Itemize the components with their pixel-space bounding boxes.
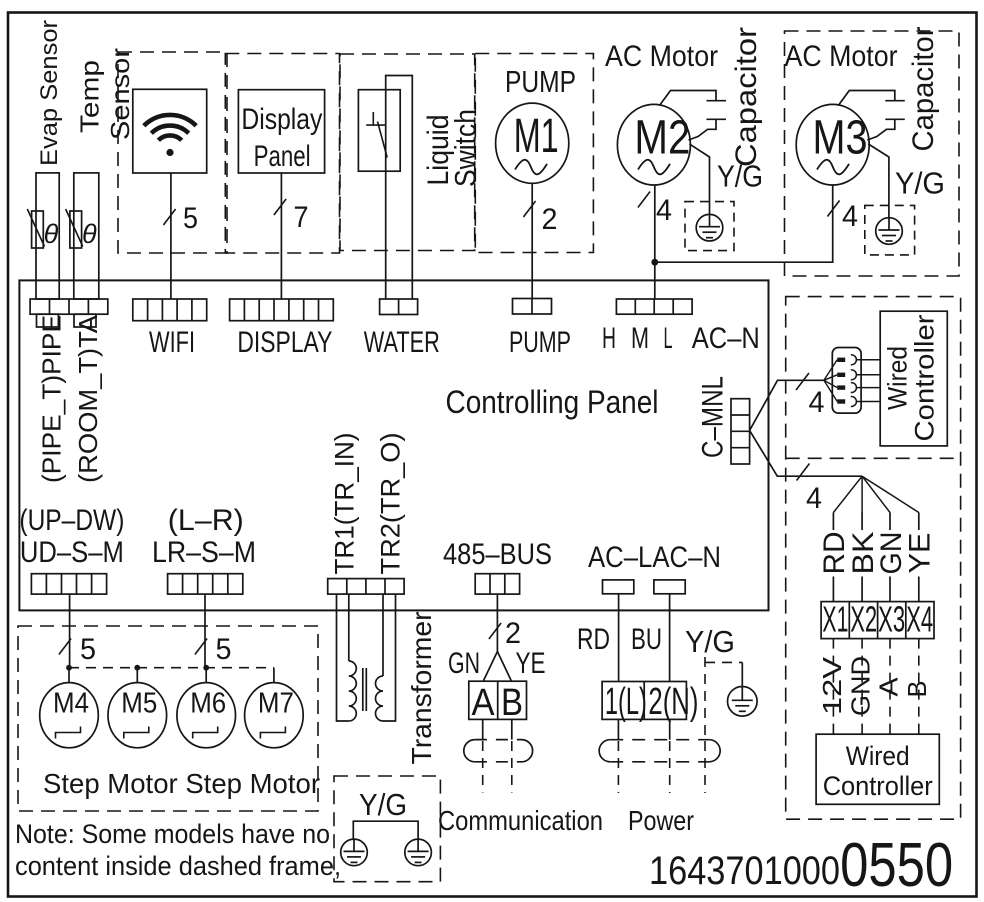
wire fork to A/B <box>484 652 498 681</box>
svg-text:5: 5 <box>216 633 232 666</box>
wire N to plug <box>669 719 671 739</box>
wired controller box (bottom) <box>816 734 939 804</box>
wire transformer primary inner <box>348 594 350 661</box>
svg-text:θ: θ <box>44 219 59 249</box>
svg-text:Capacitor: Capacitor <box>907 27 940 152</box>
wire GN segment <box>889 513 891 531</box>
wire count 4 (M3) <box>827 201 839 217</box>
wire to power earth <box>741 662 743 687</box>
capacitor C2 wiring bottom <box>867 119 895 140</box>
dashed box transformer earth <box>334 776 440 882</box>
step motor M5 circle <box>108 683 167 748</box>
display panel box U3 <box>238 90 324 173</box>
wire transformer primary outer <box>337 594 349 721</box>
svg-text:Note: Some models have no: Note: Some models have no <box>15 819 330 849</box>
svg-text:LR–S–M: LR–S–M <box>152 536 256 569</box>
svg-text:UD–S–M: UD–S–M <box>20 536 124 569</box>
junction node M4 <box>66 665 72 671</box>
capacitor C2 plate 1 <box>885 100 905 102</box>
svg-text:θ: θ <box>82 219 97 249</box>
wire UD-S-M to M4 <box>69 594 71 668</box>
wire M3 down to junction <box>655 185 833 262</box>
step motor M5 symbol <box>124 727 149 739</box>
svg-text:Temp: Temp <box>74 60 104 133</box>
wire count 4 (bottom) <box>797 464 810 481</box>
liquid switch S1 box <box>358 90 400 172</box>
wired controller box (top) <box>880 311 947 446</box>
svg-text:(ROOM_T)TA: (ROOM_T)TA <box>73 314 103 483</box>
wire count 2 (pump) <box>523 201 535 217</box>
dashed frame wired controller (top) <box>786 297 961 820</box>
svg-text:YE: YE <box>904 533 937 574</box>
svg-text:X2: X2 <box>850 599 877 640</box>
svg-text:A: A <box>873 677 903 697</box>
liquid switch cable run <box>386 76 413 300</box>
ground symbol earth 1 <box>341 839 368 866</box>
svg-text:M2: M2 <box>634 112 690 165</box>
svg-text:WATER: WATER <box>364 326 440 359</box>
svg-text:12V: 12V <box>817 656 847 715</box>
svg-text:Power: Power <box>628 805 694 836</box>
step motor M7 symbol <box>260 727 285 739</box>
svg-text:(L–R): (L–R) <box>168 504 244 537</box>
wire wifi module to WIFI connector <box>170 173 172 299</box>
svg-text:7: 7 <box>294 201 309 234</box>
dashed box M2 earth <box>685 202 734 251</box>
svg-text:5: 5 <box>183 202 198 235</box>
wire N dashed below <box>669 741 671 793</box>
svg-text:Display: Display <box>241 103 322 136</box>
motor M1 circle <box>496 103 569 183</box>
svg-text:PUMP: PUMP <box>509 326 571 359</box>
wired controller plug shell <box>832 348 861 414</box>
svg-text:Switch: Switch <box>450 109 483 187</box>
motor M1 sine <box>515 160 547 175</box>
wire Y/G dashed <box>704 657 706 740</box>
svg-text:M5: M5 <box>121 688 157 720</box>
svg-text:GND: GND <box>846 656 876 716</box>
plug pins <box>837 358 845 362</box>
ground symbol power earth <box>728 687 758 717</box>
connector AC-L <box>603 580 634 594</box>
svg-text:Panel: Panel <box>254 140 311 173</box>
svg-text:L: L <box>664 322 673 355</box>
connector PIPE/TA 4-pin <box>30 299 108 314</box>
ground symbol M3 <box>876 218 903 245</box>
svg-text:Step Motor Step Motor: Step Motor Step Motor <box>43 768 320 799</box>
step motor M6 symbol <box>193 727 218 739</box>
capacitor C1 wiring top <box>660 91 717 106</box>
wire transformer secondary inner <box>382 594 384 676</box>
svg-text:Sensor: Sensor <box>105 48 135 140</box>
wire B dashed below <box>511 741 513 793</box>
svg-text:Evap Sensor: Evap Sensor <box>36 20 63 166</box>
wire M2 to earth <box>689 144 709 215</box>
connector AC-N <box>654 580 685 594</box>
terminal block X1 X2 X3 X4 <box>821 602 934 639</box>
wifi module box U2 <box>133 89 207 173</box>
svg-text:2: 2 <box>505 617 521 650</box>
wire C-MNL to X terminals <box>750 430 863 476</box>
svg-text:PUMP: PUMP <box>505 64 576 99</box>
svg-text:C–MNL: C–MNL <box>696 376 729 458</box>
connector PIPE/TA tab 1 <box>37 314 59 327</box>
thermistor RT1 element <box>32 211 44 248</box>
wire B dashed <box>918 639 920 735</box>
svg-text:GN: GN <box>448 647 480 680</box>
svg-text:TR2(TR_O): TR2(TR_O) <box>376 433 406 575</box>
svg-text:Capacitor: Capacitor <box>730 27 763 167</box>
wire earth bracket <box>353 821 418 839</box>
wire count 7 (display) <box>274 199 286 215</box>
wire AC-L down <box>618 594 620 682</box>
dashed frame AC motor M3 <box>785 31 960 276</box>
svg-text:M1: M1 <box>514 110 559 163</box>
wire count 5 (LR) <box>195 639 207 655</box>
svg-text:M7: M7 <box>258 688 294 720</box>
wifi icon <box>144 115 196 140</box>
motor M3 circle <box>796 104 869 185</box>
fan-out to X1-X4 <box>833 476 862 512</box>
motor M2 circle <box>617 104 690 185</box>
svg-text:Y/G: Y/G <box>359 787 407 822</box>
connector 485-BUS 3-pin <box>475 574 519 594</box>
thermistor RT1 diagonal <box>27 209 44 247</box>
wire B to plug <box>511 719 513 739</box>
transformer T1 secondary winding <box>376 676 383 721</box>
svg-text:AC Motor: AC Motor <box>605 40 718 73</box>
wire A dashed <box>889 639 891 735</box>
svg-text:A: A <box>472 682 496 724</box>
dashed frame liquid switch <box>340 54 475 251</box>
step motor M4 circle <box>40 683 99 748</box>
wire YE segment <box>918 513 920 531</box>
svg-text:B: B <box>501 682 523 724</box>
connector WATER 2-pin <box>380 299 418 315</box>
wire count 4 (M2) <box>638 192 650 208</box>
transformer T1 core <box>362 668 364 711</box>
junction node M5 <box>134 665 140 671</box>
svg-text:1643701000: 1643701000 <box>649 849 840 893</box>
thermistor RT2 diagonal <box>66 209 83 247</box>
svg-text:5: 5 <box>80 633 96 666</box>
svg-text:Y/G: Y/G <box>685 624 735 659</box>
svg-text:4: 4 <box>809 386 825 419</box>
terminal block A/B <box>469 681 527 719</box>
transformer T1 primary winding <box>349 661 357 721</box>
svg-text:TR1(TR_IN): TR1(TR_IN) <box>330 433 360 575</box>
liquid switch S1 contact <box>372 112 374 125</box>
dashed frame step motors <box>18 626 318 811</box>
step motor M4 symbol <box>56 727 81 739</box>
svg-text:M4: M4 <box>53 688 89 720</box>
wire L to plug <box>617 719 619 739</box>
svg-text:Wired: Wired <box>883 346 913 410</box>
wire stub M5 <box>136 668 138 683</box>
svg-text:Controller: Controller <box>910 314 940 441</box>
connector WIFI 5-pin <box>133 299 207 321</box>
connector PUMP 2-pin <box>513 299 552 315</box>
motor M2 sine <box>638 160 670 175</box>
ground symbol M2 <box>696 214 723 241</box>
plug socket contacts <box>851 355 857 365</box>
svg-text:content inside dashed frame,: content inside dashed frame, <box>15 851 341 881</box>
wire BK segment <box>861 513 863 531</box>
wire M1 to PUMP connector <box>531 183 533 298</box>
connector PIPE/TA tab 2 <box>74 314 96 327</box>
wire M3 to earth <box>868 144 889 218</box>
thermistor RT2 probe body <box>74 173 99 299</box>
wire A dashed below <box>482 741 484 793</box>
connector DISPLAY 7-pin <box>230 299 334 321</box>
svg-text:YE: YE <box>516 647 546 680</box>
wire AC-N down <box>669 594 671 682</box>
wire LR-S-M to M6 <box>204 594 206 668</box>
svg-text:M: M <box>631 322 649 355</box>
wire M2 to H M L connector <box>654 185 656 299</box>
step motor M7 circle <box>245 683 304 748</box>
svg-text:4: 4 <box>656 194 672 227</box>
wire 485-BUS down <box>496 594 498 651</box>
plug fan-out wires <box>824 360 837 381</box>
thermistor RT1 probe body <box>36 173 59 299</box>
svg-text:Wired: Wired <box>846 741 910 771</box>
svg-text:(PIPE_T)PIPE: (PIPE_T)PIPE <box>36 315 66 483</box>
svg-text:X3: X3 <box>878 599 905 640</box>
capacitor C2 plate 2 <box>885 118 905 120</box>
svg-text:AC–N: AC–N <box>692 322 760 355</box>
wire stub M6 <box>205 668 207 683</box>
capacitor C1 plate 1 <box>707 100 727 102</box>
wire RD segment <box>832 513 834 531</box>
communication plug shell <box>464 740 475 762</box>
svg-text:4: 4 <box>842 200 858 233</box>
controlling panel board outline <box>19 280 768 610</box>
wire count 5 (UD) <box>59 639 71 655</box>
svg-text:RD: RD <box>577 623 610 656</box>
wire 12V dashed <box>832 639 834 735</box>
svg-text:0550: 0550 <box>840 831 953 900</box>
wire L dashed below <box>617 741 619 793</box>
step motor M6 circle <box>177 683 236 748</box>
svg-text:1(L): 1(L) <box>605 681 647 723</box>
wire count 5 (wifi) <box>163 209 175 225</box>
dashed frame pump <box>475 54 593 253</box>
svg-text:AC–LAC–N: AC–LAC–N <box>588 541 721 574</box>
svg-text:H: H <box>602 322 616 355</box>
svg-text:Y/G: Y/G <box>717 159 763 194</box>
wire count 4 (wired controller plug) <box>796 373 809 390</box>
svg-text:Communication: Communication <box>438 805 603 836</box>
connector C-MNL 4-pin <box>731 399 750 464</box>
svg-text:BU: BU <box>631 623 662 656</box>
connector UD-S-M 5-pin <box>31 574 106 594</box>
capacitor C1 wiring bottom <box>689 119 717 140</box>
capacitor C1 plate 2 <box>707 118 727 120</box>
connector H M L AC-N 4-pin <box>616 299 692 314</box>
wire stub M4 <box>68 668 70 683</box>
svg-text:AC Motor: AC Motor <box>785 40 898 73</box>
svg-text:2(N): 2(N) <box>648 681 698 723</box>
svg-text:WIFI: WIFI <box>149 326 195 359</box>
svg-text:Controller: Controller <box>823 771 933 801</box>
svg-text:485–BUS: 485–BUS <box>443 538 552 571</box>
svg-text:Transformer: Transformer <box>406 612 437 765</box>
dashed frame display panel <box>225 54 339 254</box>
wire step motor bus <box>69 667 274 669</box>
svg-text:(UP–DW): (UP–DW) <box>19 504 124 537</box>
wire A to plug <box>482 719 484 739</box>
svg-text:DISPLAY: DISPLAY <box>237 326 332 359</box>
svg-text:Y/G: Y/G <box>895 166 945 201</box>
svg-text:X4: X4 <box>906 599 933 640</box>
svg-text:4: 4 <box>806 482 822 515</box>
wire transformer secondary outer <box>383 594 396 721</box>
terminal block 1(L)2(N) <box>602 682 686 720</box>
dashed box M3 earth <box>865 205 915 255</box>
wire C-MNL to plug <box>750 380 824 430</box>
thermistor RT2 element <box>70 211 82 248</box>
wire display panel to DISPLAY connector <box>280 173 282 299</box>
motor M3 sine <box>817 160 849 175</box>
connector LR-S-M 5-pin <box>168 574 243 594</box>
power plug shell <box>599 740 610 762</box>
svg-text:M3: M3 <box>813 112 868 165</box>
dashed frame wifi sensor <box>118 52 227 253</box>
wires plug to wired controller <box>857 359 881 361</box>
svg-text:X1: X1 <box>822 599 848 640</box>
svg-text:Controlling Panel: Controlling Panel <box>446 384 659 420</box>
wire count 2 (485) <box>489 623 501 639</box>
junction node M6 <box>203 665 209 671</box>
wire GND dashed <box>861 639 863 735</box>
connector TR 4-pin <box>328 579 404 595</box>
svg-text:M6: M6 <box>190 688 226 720</box>
svg-text:B: B <box>902 681 932 698</box>
capacitor C2 wiring top <box>838 91 895 106</box>
ground symbol earth 2 <box>405 839 432 866</box>
svg-text:2: 2 <box>542 203 558 236</box>
junction node M2/M3 <box>651 259 658 266</box>
